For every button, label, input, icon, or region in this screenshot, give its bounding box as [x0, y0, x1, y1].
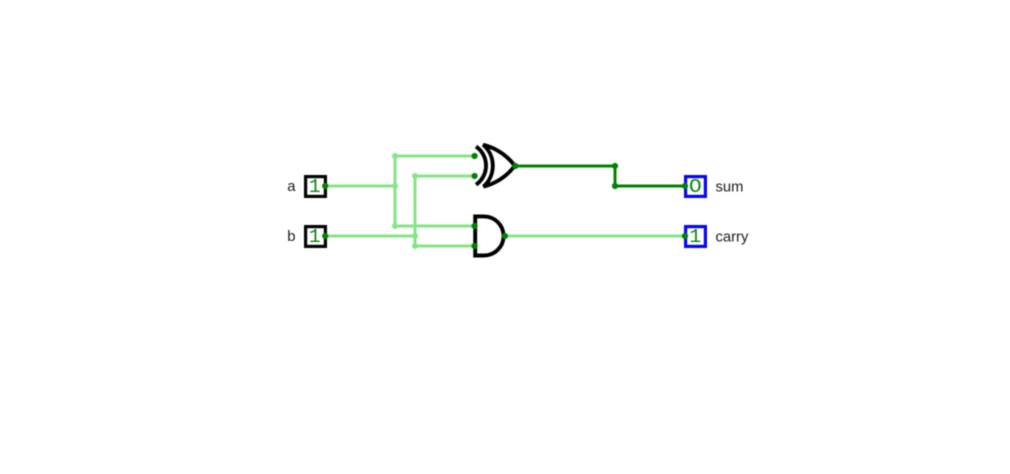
wire bus1 to XOR input1 [395, 155, 475, 158]
wire sum segment 1 (XOR output) [515, 165, 615, 168]
wire vertical bus 2 [414, 176, 417, 246]
svg-text:1: 1 [309, 226, 321, 248]
node junction bus2-top [412, 173, 418, 179]
pin AND in1 [472, 223, 478, 229]
wire sum segment 2 vertical [614, 166, 617, 186]
svg-text:O: O [689, 176, 702, 198]
wire sum segment 3 to sum box [615, 185, 685, 188]
node sum corner top [612, 163, 618, 169]
op AND gate U2 [475, 216, 503, 255]
svg-text:1: 1 [309, 176, 321, 198]
output sum box [686, 177, 706, 197]
pin AND out [502, 233, 508, 239]
node junction b-bus2 [412, 233, 418, 239]
output carry box [686, 227, 706, 247]
node sum corner bottom [612, 183, 618, 189]
wire a to junction [325, 185, 395, 188]
wire vertical bus 1 [394, 156, 397, 226]
node junction a-bus1 [392, 183, 398, 189]
pin output sum [682, 183, 688, 189]
wire bus2 to XOR input2 [415, 175, 475, 178]
node junction bus1-bottom [392, 223, 398, 229]
pin XOR in2 [472, 173, 478, 179]
op XOR gate U1 [476, 145, 515, 187]
node junction bus1-top [392, 153, 398, 159]
svg-text:b: b [287, 229, 295, 245]
pin AND in2 [472, 243, 478, 249]
svg-text:sum: sum [716, 180, 744, 196]
pin XOR out [512, 163, 518, 169]
wire b to junction [325, 235, 415, 238]
input b box [306, 227, 326, 247]
pin XOR in1 [472, 153, 478, 159]
wire carry (AND output to carry box) [505, 235, 685, 238]
input a box [306, 177, 326, 197]
pin input a [322, 183, 328, 189]
wire bus2 to AND input2 [415, 245, 475, 248]
pin input b [322, 233, 328, 239]
node junction bus2-bottom [412, 243, 418, 249]
svg-text:a: a [287, 179, 296, 195]
pin output carry [682, 233, 688, 239]
svg-text:1: 1 [689, 226, 701, 248]
svg-text:carry: carry [716, 230, 749, 246]
wire bus1 to AND input1 [395, 225, 475, 228]
